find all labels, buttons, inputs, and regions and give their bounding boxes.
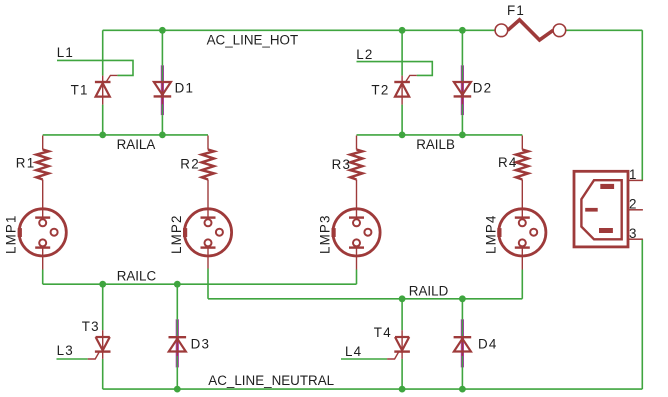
svg-text:R1: R1 xyxy=(16,155,36,170)
diode D2 xyxy=(454,65,472,115)
svg-text:T1: T1 xyxy=(71,82,89,97)
wire AC_LINE_NEUTRAL bottom horizontal xyxy=(103,388,643,390)
junction D4/RAILD xyxy=(459,295,466,302)
svg-text:L3: L3 xyxy=(57,343,74,358)
wire net L2 to T2 gate xyxy=(357,62,433,76)
wire D4 column upper xyxy=(461,299,463,320)
wire T2 column lower xyxy=(401,105,403,135)
thyristor T2 xyxy=(394,75,417,104)
svg-text:2: 2 xyxy=(629,196,636,211)
wire T3 column lower xyxy=(102,359,104,389)
wire RAILA horizontal xyxy=(43,134,208,136)
svg-text:LMP1: LMP1 xyxy=(3,214,18,254)
wire D3 column lower xyxy=(176,367,178,389)
svg-text:D3: D3 xyxy=(191,336,211,351)
svg-text:L1: L1 xyxy=(57,45,74,60)
svg-text:LMP3: LMP3 xyxy=(317,214,332,254)
junction D1/top xyxy=(159,27,166,34)
fuse F1 xyxy=(495,20,566,40)
resistor R1 xyxy=(36,136,48,218)
diode D4 xyxy=(454,319,472,367)
svg-text:R3: R3 xyxy=(332,157,352,172)
svg-text:R4: R4 xyxy=(498,154,518,169)
wire D3 column upper xyxy=(176,284,178,319)
junction D1/RAILA xyxy=(159,132,166,139)
diode D1 xyxy=(154,65,172,115)
junction D3/bottom xyxy=(174,386,181,393)
wire net L1 to T1 gate xyxy=(57,60,133,75)
lamp LMP3 (XLR socket) xyxy=(332,209,381,270)
lamp LMP4 (XLR socket) xyxy=(497,209,546,270)
wire D2 column lower xyxy=(461,115,463,135)
svg-text:D2: D2 xyxy=(473,80,493,95)
svg-text:F1: F1 xyxy=(507,3,525,18)
junction T4/bottom xyxy=(399,386,406,393)
svg-text:LMP4: LMP4 xyxy=(483,214,498,254)
wire LMP3 bottom to RAILC xyxy=(356,270,358,285)
junction T2/top xyxy=(399,27,406,34)
wire T2 column upper xyxy=(401,30,403,75)
svg-text:AC_LINE_NEUTRAL: AC_LINE_NEUTRAL xyxy=(208,373,334,388)
wire RAILC horizontal xyxy=(43,283,357,285)
thyristor T4 xyxy=(387,330,410,359)
svg-text:T3: T3 xyxy=(82,319,100,334)
wire AC_LINE_HOT top horizontal right of fuse xyxy=(566,29,643,31)
pin 3 stub xyxy=(628,238,643,240)
junction T2/RAILB xyxy=(399,132,406,139)
connector X1 (IEC inlet) xyxy=(574,171,643,247)
wire T4 column lower xyxy=(401,359,403,389)
svg-text:3: 3 xyxy=(629,226,637,241)
wire D4 column lower xyxy=(461,367,463,389)
resistor R3 xyxy=(350,136,362,218)
svg-text:1: 1 xyxy=(629,167,636,182)
thyristor T1 xyxy=(95,75,118,104)
thyristor T3 xyxy=(88,330,111,359)
junction D3/RAILC xyxy=(174,281,181,288)
wire right vertical pin 3 to bottom xyxy=(641,239,643,389)
svg-text:T4: T4 xyxy=(374,324,392,339)
svg-text:RAILC: RAILC xyxy=(117,268,157,283)
wire LMP4 bottom to RAILD xyxy=(521,270,523,299)
wire T1 column lower xyxy=(102,105,104,135)
wire T1 column upper xyxy=(102,30,104,75)
junction T1/RAILA xyxy=(99,132,106,139)
wire LMP2 bottom to RAILD xyxy=(207,269,209,299)
svg-text:D4: D4 xyxy=(478,336,498,351)
junction T3/RAILC xyxy=(99,281,106,288)
wire D1 column upper xyxy=(161,30,163,65)
junction D4/bottom xyxy=(459,386,466,393)
wire LMP1 bottom to RAILC xyxy=(42,270,44,285)
wire RAILD horizontal xyxy=(208,298,522,300)
wire RAILB horizontal xyxy=(357,134,523,136)
svg-text:D1: D1 xyxy=(175,80,195,95)
diode D3 xyxy=(169,319,187,367)
resistor R2 xyxy=(202,136,214,218)
lamp LMP1 (XLR socket) xyxy=(18,209,67,270)
svg-text:LMP2: LMP2 xyxy=(169,214,184,254)
svg-text:RAILB: RAILB xyxy=(416,137,455,152)
lamp LMP2 (XLR socket) xyxy=(183,209,232,269)
wire D1 column lower xyxy=(161,115,163,135)
svg-text:L2: L2 xyxy=(356,46,373,61)
wire net L3 to T3 gate xyxy=(57,358,88,360)
wire T3 column upper xyxy=(102,284,104,330)
wire net L4 to T4 gate xyxy=(341,358,387,360)
wire D2 column upper xyxy=(461,30,463,65)
svg-text:RAILD: RAILD xyxy=(409,283,449,298)
junction D2/top xyxy=(459,27,466,34)
svg-text:R2: R2 xyxy=(180,156,200,171)
wire T4 column upper xyxy=(401,299,403,330)
wire right vertical to pin 1 xyxy=(641,30,643,180)
pin 2 stub xyxy=(628,209,643,211)
resistor R4 xyxy=(516,136,528,218)
svg-text:L4: L4 xyxy=(345,344,362,359)
wire AC_LINE_HOT top horizontal left of fuse xyxy=(103,29,495,31)
junction D2/RAILB xyxy=(459,132,466,139)
junction T4/RAILD xyxy=(399,295,406,302)
svg-text:AC_LINE_HOT: AC_LINE_HOT xyxy=(207,32,299,47)
pin 1 stub xyxy=(628,179,643,181)
svg-text:RAILA: RAILA xyxy=(117,137,157,152)
svg-text:T2: T2 xyxy=(371,82,389,97)
